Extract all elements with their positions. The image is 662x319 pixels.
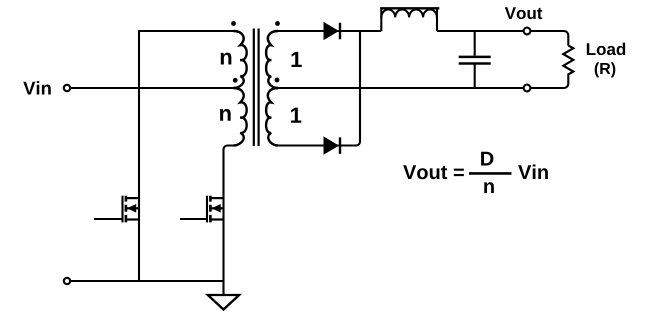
- wire secondary bottom to diode D2: [278, 144, 356, 146]
- phase dot secondary top: [275, 21, 280, 26]
- MOSFET Q1 channel bar (3 segments): [125, 196, 128, 223]
- label n (top primary): [221, 53, 232, 65]
- output terminal top (open circle): [524, 28, 531, 35]
- inductor L1 winding arcs: [381, 9, 437, 17]
- wire diode cathode junction vertical: [356, 31, 360, 146]
- formula Vout =: [403, 165, 464, 179]
- label n (bottom primary): [220, 109, 231, 121]
- MOSFET Q2 source stub: [211, 218, 224, 220]
- wire left vertical (Q1 drain riser): [138, 30, 140, 220]
- diode D1 (top rectifier): [324, 23, 338, 40]
- resistor Load R zigzag: [563, 45, 573, 74]
- inductor L1 posts: [381, 9, 437, 32]
- label 1 (top secondary): [291, 52, 301, 67]
- wire Q2 source to ground node: [222, 220, 224, 282]
- capacitor C1 top lead: [474, 31, 476, 56]
- wire Q1 source to bottom rail: [138, 220, 140, 282]
- MOSFET Q1 gate lead: [94, 218, 123, 220]
- bottom return terminal (open circle): [64, 278, 70, 284]
- phase dot primary top: [231, 21, 236, 26]
- MOSFET Q2 channel bar (3 segments): [209, 196, 212, 223]
- output terminal bottom (open circle): [524, 85, 531, 92]
- wire secondary top rail to inductor: [278, 30, 381, 32]
- inductor L1 top bar: [380, 7, 439, 9]
- capacitor C1 plates: [459, 57, 491, 64]
- transformer primary bottom winding: [234, 88, 247, 146]
- MOSFET Q1 body lead and arrow: [127, 207, 139, 209]
- phase dot secondary center: [275, 78, 280, 83]
- wire middle rail (secondary center to load bottom): [278, 74, 568, 89]
- formula Vin: [518, 165, 548, 179]
- MOSFET Q2 gate lead: [180, 218, 207, 220]
- transformer primary top winding: [234, 31, 247, 88]
- MOSFET Q1 gate bar: [121, 196, 123, 223]
- label Load: [587, 43, 625, 55]
- formula denominator n: [484, 182, 494, 193]
- MOSFET Q1 source stub: [126, 218, 139, 220]
- phase dot primary center: [233, 78, 238, 83]
- ground symbol (open triangle): [208, 295, 239, 310]
- transformer secondary top winding: [266, 31, 278, 88]
- formula numerator D: [481, 152, 493, 166]
- MOSFET Q2 drain stub: [211, 197, 224, 199]
- wire Vin to transformer center tap: [70, 87, 233, 89]
- wire top rail inductor to load: [437, 31, 568, 46]
- transformer core: [254, 29, 259, 147]
- MOSFET Q1 drain stub: [126, 197, 139, 199]
- MOSFET Q2 body lead and arrow: [212, 207, 224, 209]
- label Vin: [23, 81, 51, 94]
- MOSFET Q2 gate bar: [206, 196, 208, 223]
- ground stem: [222, 281, 224, 295]
- wire primary top rail: [139, 30, 234, 32]
- wire primary bottom to Q2 drain: [224, 146, 234, 220]
- capacitor C1 bottom lead: [474, 65, 476, 89]
- label 1 (bottom secondary): [291, 108, 301, 123]
- diode D2 (bottom rectifier): [324, 137, 338, 154]
- wire bottom rail: [70, 280, 223, 282]
- transformer secondary bottom winding: [266, 88, 278, 146]
- formula fraction bar: [469, 172, 512, 175]
- label (R): [595, 62, 616, 77]
- input terminal (open circle): [64, 85, 70, 91]
- label Vout (output): [505, 7, 542, 19]
